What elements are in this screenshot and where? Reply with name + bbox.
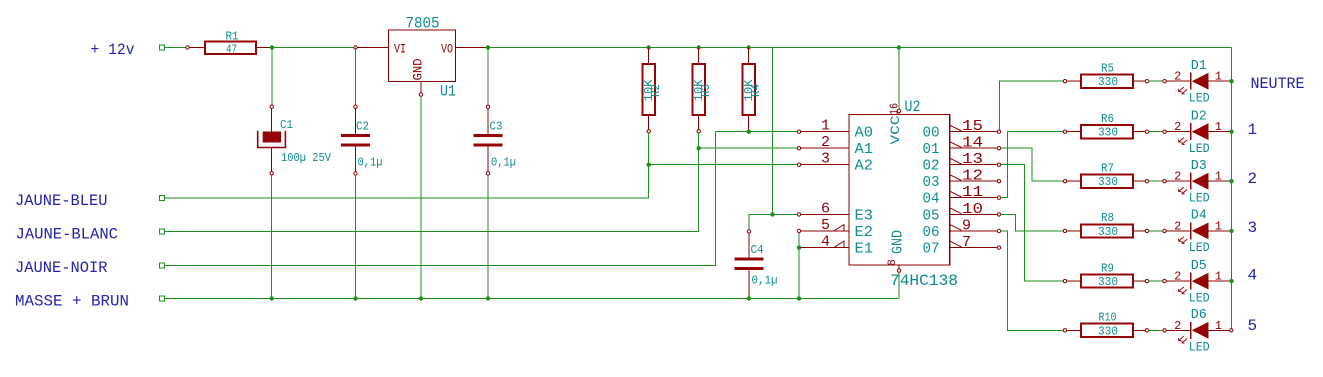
wire R6 to D2 — [1149, 131, 1163, 133]
junction E3 node — [770, 212, 774, 216]
svg-text:8: 8 — [887, 259, 899, 266]
svg-text:330: 330 — [1098, 275, 1118, 289]
capacitor C1 — [258, 48, 332, 176]
pin 12 O3 of U2 — [923, 168, 1001, 192]
junction C4 at masse — [747, 296, 751, 300]
LED D1 — [1163, 58, 1230, 106]
pin 7 O7 of U2 — [923, 234, 1001, 258]
wire R8 to D4 — [1149, 230, 1163, 232]
svg-text:LED: LED — [1189, 91, 1210, 106]
svg-text:R3: R3 — [699, 84, 713, 97]
svg-text:0,1µ: 0,1µ — [358, 156, 383, 170]
resistor R2 — [642, 48, 663, 134]
svg-text:11: 11 — [962, 184, 983, 201]
svg-text:2: 2 — [1174, 120, 1181, 134]
pin 11 O4 of U2 — [923, 184, 1001, 208]
svg-text:10: 10 — [962, 201, 983, 218]
svg-text:3: 3 — [1247, 219, 1257, 237]
svg-text:1: 1 — [1215, 70, 1222, 84]
svg-text:1: 1 — [1215, 270, 1222, 284]
svg-text:C4: C4 — [751, 243, 764, 257]
svg-text:16: 16 — [888, 103, 902, 115]
junction VCC at +5V rail — [897, 45, 901, 49]
svg-text:R5: R5 — [1101, 62, 1114, 76]
svg-text:+ 12v: + 12v — [91, 41, 135, 59]
wire net JAUNE-BLANC to A1 — [160, 229, 165, 234]
capacitor C2 — [341, 48, 383, 176]
svg-text:03: 03 — [923, 174, 940, 191]
LED D2 — [1163, 108, 1230, 156]
resistor R10 — [1063, 311, 1148, 339]
junction D2 anode — [1229, 130, 1233, 134]
svg-text:R6: R6 — [1101, 112, 1114, 126]
svg-text:02: 02 — [923, 158, 940, 175]
wire C1 to masse — [271, 175, 273, 299]
junction R2 at +5V rail — [647, 45, 651, 49]
LED D4 — [1163, 208, 1230, 256]
pin 15 O0 of U2 — [923, 118, 1001, 142]
svg-text:100µ 25V: 100µ 25V — [281, 151, 332, 165]
wire net JAUNE-NOIR to A0 — [160, 263, 165, 268]
svg-text:01: 01 — [923, 141, 940, 158]
pin 2 A1 of U2 — [797, 134, 873, 158]
junction R4 at +5V rail — [747, 45, 751, 49]
svg-text:04: 04 — [923, 191, 940, 208]
svg-text:LED: LED — [1189, 141, 1210, 156]
wire O5 to R8 — [1001, 214, 1064, 231]
pin tip D6 anode — [1230, 329, 1233, 332]
wire +5V to LED anodes rail — [1231, 48, 1233, 329]
junction C3 at masse — [486, 296, 490, 300]
pin 13 O2 of U2 — [923, 151, 1001, 175]
wire O1 to R7 — [1001, 148, 1064, 181]
svg-text:330: 330 — [1098, 175, 1118, 189]
wire E2-E1 to masse — [798, 233, 800, 299]
junction U1 GND at masse — [419, 296, 423, 300]
wire +12v to R1 — [165, 47, 187, 49]
junction C2 at masse — [353, 296, 357, 300]
LED D3 — [1163, 158, 1230, 206]
pin 3 A2 of U2 — [797, 151, 873, 175]
svg-text:D1: D1 — [1191, 58, 1207, 74]
svg-text:R2: R2 — [649, 84, 663, 97]
svg-text:13: 13 — [962, 151, 983, 168]
junction D5 anode — [1229, 279, 1233, 283]
junction R4 on A0 net — [747, 130, 751, 134]
svg-text:LED: LED — [1189, 290, 1210, 305]
svg-text:330: 330 — [1098, 126, 1118, 140]
pin 6 E3 of U2 — [797, 200, 873, 224]
pin 4 E1 of U2 — [801, 234, 873, 258]
svg-text:0,1µ: 0,1µ — [491, 156, 516, 170]
wire U2 GND to masse rail — [898, 272, 900, 298]
capacitor C3 — [474, 48, 517, 176]
svg-text:LED: LED — [1189, 191, 1210, 206]
svg-text:2: 2 — [1174, 70, 1181, 84]
pin 1 A0 of U2 — [797, 118, 873, 142]
decoder U2 74HC138 body — [849, 115, 950, 266]
svg-text:GND: GND — [411, 58, 426, 80]
svg-text:12: 12 — [962, 168, 983, 185]
wire O0 to R5 — [1000, 81, 1064, 130]
svg-text:1: 1 — [1215, 219, 1222, 233]
svg-text:JAUNE-BLEU: JAUNE-BLEU — [15, 192, 108, 210]
wire R7 to D3 — [1149, 180, 1163, 182]
resistor R9 — [1063, 261, 1148, 289]
svg-text:14: 14 — [962, 135, 983, 152]
svg-text:4: 4 — [821, 234, 830, 251]
svg-text:JAUNE-BLANC: JAUNE-BLANC — [16, 226, 119, 244]
svg-text:D2: D2 — [1191, 108, 1207, 124]
svg-text:07: 07 — [923, 241, 940, 258]
junction D3 anode — [1229, 179, 1233, 183]
pin 8 GND of U2 — [887, 230, 907, 272]
svg-text:330: 330 — [1098, 225, 1118, 239]
junction C1 at masse — [270, 296, 274, 300]
capacitor C4 — [735, 230, 778, 297]
svg-text:74HC138: 74HC138 — [890, 272, 958, 290]
svg-text:E2: E2 — [855, 224, 874, 241]
wire net MASSE + BRUN rail — [160, 296, 165, 301]
svg-text:1: 1 — [1215, 319, 1222, 333]
wire U1 GND to masse rail — [420, 96, 422, 298]
junction A2 tee — [647, 163, 651, 167]
svg-text:D5: D5 — [1191, 258, 1207, 274]
svg-text:U2: U2 — [905, 98, 921, 116]
wire R9 to D5 — [1149, 280, 1163, 282]
svg-text:5: 5 — [1247, 317, 1257, 335]
wire +5V drop to E3 — [772, 48, 774, 215]
svg-text:R1: R1 — [226, 30, 239, 44]
wire O6 to R10 — [1001, 231, 1064, 330]
svg-text:R9: R9 — [1101, 261, 1114, 275]
svg-text:D3: D3 — [1191, 158, 1207, 174]
svg-text:1: 1 — [821, 118, 830, 135]
svg-text:LED: LED — [1189, 340, 1210, 355]
svg-text:JAUNE-NOIR: JAUNE-NOIR — [15, 259, 108, 277]
junction A1 tee — [697, 146, 701, 150]
svg-text:C3: C3 — [490, 120, 503, 134]
svg-text:15: 15 — [962, 118, 983, 135]
resistor R6 — [1063, 112, 1148, 140]
svg-text:D4: D4 — [1191, 208, 1207, 224]
svg-text:1: 1 — [1247, 121, 1257, 139]
wire C2 to masse — [355, 175, 357, 298]
resistor R8 — [1063, 211, 1148, 239]
LED D5 — [1163, 258, 1230, 306]
resistor R3 — [692, 48, 713, 134]
resistor R1 — [186, 30, 270, 57]
wire E3 node to C4 — [749, 214, 773, 229]
svg-text:0,1µ: 0,1µ — [752, 274, 778, 288]
junction E2-E1 wire at masse — [797, 296, 801, 300]
junction R1-C1 node — [270, 45, 274, 49]
svg-text:C2: C2 — [356, 120, 369, 134]
svg-text:5: 5 — [821, 217, 830, 234]
svg-text:6: 6 — [821, 200, 830, 217]
pin 5 E2 of U2 — [797, 217, 873, 241]
wire A0 horizontal — [716, 131, 798, 133]
svg-text:R7: R7 — [1101, 162, 1114, 176]
svg-text:NEUTRE: NEUTRE — [1251, 75, 1305, 93]
svg-text:2: 2 — [1247, 170, 1257, 188]
svg-text:4: 4 — [1247, 267, 1257, 285]
svg-text:3: 3 — [821, 151, 830, 168]
svg-text:R4: R4 — [749, 84, 763, 97]
svg-text:VO: VO — [441, 42, 453, 57]
junction E1 node — [797, 245, 801, 249]
svg-text:1: 1 — [1215, 170, 1222, 184]
svg-text:05: 05 — [923, 207, 940, 224]
svg-text:2: 2 — [1174, 219, 1181, 233]
svg-text:7: 7 — [962, 234, 971, 251]
svg-text:LED: LED — [1189, 240, 1210, 255]
svg-text:E3: E3 — [855, 207, 874, 224]
wire O4 to R6 — [1001, 132, 1064, 198]
svg-text:A0: A0 — [855, 125, 874, 142]
junction D1 anode — [1229, 79, 1233, 83]
wire A1 horizontal — [699, 147, 798, 149]
regulator U1 7805 — [354, 15, 486, 101]
svg-text:47: 47 — [226, 43, 237, 57]
svg-text:GND: GND — [890, 230, 907, 254]
wire R1 to U1 VI — [272, 47, 354, 49]
svg-text:E1: E1 — [855, 241, 874, 258]
svg-text:2: 2 — [821, 134, 830, 151]
pin 10 O5 of U2 — [923, 201, 1001, 225]
LED D6 — [1163, 307, 1230, 355]
svg-text:C1: C1 — [280, 118, 293, 132]
svg-text:MASSE + BRUN: MASSE + BRUN — [15, 293, 129, 311]
wire O2 to R9 — [1001, 165, 1064, 281]
pin 14 O1 of U2 — [923, 135, 1001, 159]
junction U1 VO node — [486, 45, 490, 49]
wire net JAUNE-BLEU to A2 — [160, 195, 165, 200]
svg-text:R10: R10 — [1099, 311, 1117, 325]
terminal +12v input — [160, 45, 165, 50]
svg-text:U1: U1 — [440, 83, 456, 101]
svg-text:330: 330 — [1098, 324, 1118, 338]
resistor R5 — [1063, 62, 1148, 90]
svg-text:00: 00 — [923, 125, 940, 142]
svg-text:VI: VI — [394, 42, 406, 57]
wire E3 horizontal — [773, 213, 798, 215]
svg-text:D6: D6 — [1191, 307, 1207, 323]
svg-text:2: 2 — [1174, 170, 1181, 184]
junction D4 anode — [1229, 229, 1233, 233]
svg-text:330: 330 — [1098, 75, 1118, 89]
svg-text:2: 2 — [1174, 319, 1181, 333]
pin 9 O6 of U2 — [923, 218, 1001, 242]
svg-text:7805: 7805 — [406, 15, 440, 33]
svg-text:VCC: VCC — [888, 115, 903, 144]
junction R3 at +5V rail — [697, 45, 701, 49]
resistor R7 — [1063, 162, 1148, 190]
svg-text:9: 9 — [962, 218, 971, 235]
wire R5 to D1 — [1149, 80, 1163, 82]
svg-text:06: 06 — [923, 224, 940, 241]
resistor R4 — [742, 48, 763, 131]
wire R10 to D6 — [1149, 329, 1163, 331]
svg-text:2: 2 — [1174, 270, 1181, 284]
wire C3 to masse — [487, 175, 489, 298]
svg-text:A2: A2 — [855, 158, 874, 175]
svg-text:R8: R8 — [1101, 211, 1114, 225]
svg-text:A1: A1 — [855, 141, 874, 158]
pin 16 VCC of U2 — [888, 103, 904, 145]
wire +5V rail to VCC — [898, 48, 900, 110]
svg-text:1: 1 — [1215, 120, 1222, 134]
wire A2 horizontal — [649, 164, 798, 166]
wire +5V rail — [488, 47, 1232, 49]
